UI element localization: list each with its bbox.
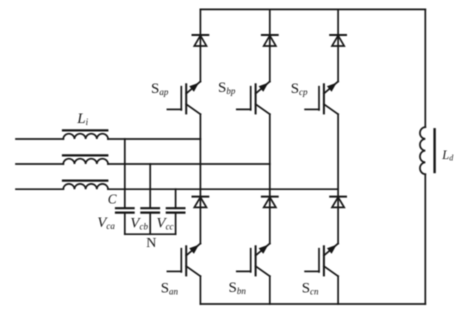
svg-text:Sbn: Sbn	[229, 280, 247, 296]
wire right DC branch upper	[424, 9, 426, 127]
wire top DC rail	[200, 8, 425, 10]
wire capacitor Cb to neutral rail	[149, 213, 151, 235]
wire phase b input	[16, 163, 63, 165]
diode Dan	[193, 197, 209, 208]
svg-text:Vca: Vca	[97, 215, 115, 231]
wire leg a: phase node vertical	[199, 114, 201, 243]
transistor Scp	[305, 82, 338, 115]
diode Dbn	[262, 197, 278, 208]
wire leg b: phase node vertical	[269, 114, 271, 243]
transistor Sap	[167, 82, 200, 115]
svg-text:Li: Li	[76, 111, 88, 127]
diode Dap	[193, 35, 209, 46]
svg-text:N: N	[146, 236, 156, 251]
wire tap phase a to capacitor Ca	[124, 139, 126, 208]
diode Dcn	[330, 197, 346, 208]
wire leg b: top rail to Sbp	[269, 9, 271, 81]
wire leg b: Sbn to bottom rail	[269, 276, 271, 304]
wire phase c to bridge	[108, 188, 338, 190]
wire bottom DC rail	[200, 303, 425, 305]
inductor Li phase a	[63, 130, 108, 139]
capacitor Cb	[141, 208, 159, 212]
wire tap phase b to capacitor Cb	[149, 164, 151, 208]
inductor Li phase c	[63, 181, 108, 190]
svg-text:Scp: Scp	[291, 81, 308, 97]
capacitor Cc	[167, 208, 185, 212]
transistor Sbp	[237, 82, 270, 115]
wire tap phase c to capacitor Cc	[175, 189, 177, 208]
wire phase b to bridge	[108, 163, 270, 165]
svg-text:Sap: Sap	[151, 81, 169, 97]
wire leg c: phase node vertical	[337, 114, 339, 243]
svg-text:Scn: Scn	[302, 281, 319, 297]
svg-text:San: San	[161, 281, 179, 297]
wire phase a input	[16, 138, 63, 140]
svg-text:Vcb: Vcb	[130, 216, 148, 232]
transistor Scn	[305, 244, 338, 277]
wire capacitor Ca to neutral rail	[124, 213, 126, 235]
transistor San	[167, 244, 200, 277]
svg-text:C: C	[108, 191, 117, 206]
wire capacitor Cc to neutral rail	[175, 213, 177, 235]
wire leg c: top rail to Scp	[337, 9, 339, 81]
diode Dbp	[262, 35, 278, 46]
diode Dcp	[330, 35, 346, 46]
wire leg a: San to bottom rail	[199, 276, 201, 304]
svg-text:Ld: Ld	[441, 148, 454, 163]
wire leg c: Scn to bottom rail	[337, 276, 339, 304]
wire phase c input	[16, 188, 63, 190]
inductor Ld	[420, 127, 435, 174]
transistor Sbn	[237, 244, 270, 277]
wire right DC branch lower	[424, 174, 426, 304]
inductor Li phase b	[63, 155, 108, 164]
wire leg a: top rail to Sap	[199, 9, 201, 81]
capacitor Ca	[116, 208, 134, 212]
svg-text:Sbp: Sbp	[218, 80, 236, 96]
svg-text:Vcc: Vcc	[156, 216, 173, 232]
wire neutral rail N	[125, 233, 176, 235]
wire phase a to bridge	[108, 138, 200, 140]
